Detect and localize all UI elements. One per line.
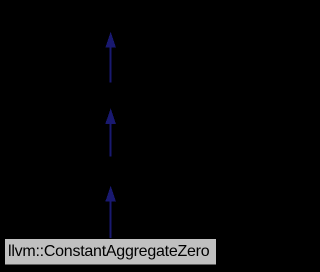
- node llvm::ConstantAggregateZero: [5, 239, 217, 266]
- node label llvm::ConstantAggregateZero: [0, 241, 217, 262]
- inheritance arrow (top level): [105, 32, 116, 83]
- inheritance arrow (middle level): [105, 108, 116, 156]
- inheritance arrow (bottom level): [105, 186, 116, 238]
